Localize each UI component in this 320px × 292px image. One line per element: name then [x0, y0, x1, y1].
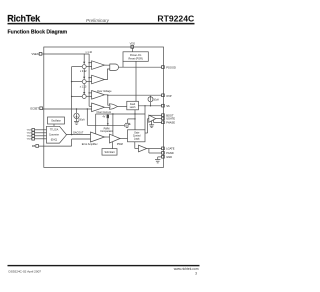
block oscillator [48, 117, 65, 126]
block POR U1 [123, 52, 148, 62]
wire PWM comp to gate logic [120, 138, 127, 140]
wire PGND line [149, 149, 162, 154]
multiplier node circle 1 [82, 65, 86, 69]
wire inhibit to PWM comp [112, 114, 114, 136]
wire latch bottom to gate logic [134, 110, 136, 130]
svg-text:OCSET: OCSET [30, 107, 39, 111]
footer rule [8, 265, 200, 266]
node OCSET source [76, 108, 77, 109]
header rule [8, 23, 195, 25]
svg-text:Comparator: Comparator [100, 130, 113, 133]
OR gate fault [109, 104, 117, 109]
wire DACOUT to error amp [67, 134, 91, 136]
node SS/current source [150, 105, 151, 106]
wire UGATE line [156, 118, 162, 120]
outer block diagram box [44, 47, 164, 167]
wire PGOOD line [119, 66, 163, 68]
comparator T2 (lower PGOOD window) [86, 69, 110, 84]
svg-text:VID0: VID0 [27, 130, 33, 132]
svg-text:VSEN: VSEN [32, 52, 39, 56]
svg-text:RichTek: RichTek [7, 14, 41, 24]
node DACOUT [71, 134, 73, 136]
svg-text:3: 3 [195, 271, 197, 275]
comparator T1 (upper PGOOD window) [86, 61, 110, 70]
comparator PWM [110, 134, 121, 143]
reference 4V clamp [102, 114, 109, 125]
svg-text:DS9224C-02 April 2007: DS9224C-02 April 2007 [9, 269, 42, 273]
multiplier node circle 3 [82, 95, 86, 99]
op-amp error amplifier [91, 132, 105, 142]
ground under 200uA [74, 122, 79, 125]
AND gate PGOOD [110, 64, 119, 70]
svg-text:www.richtek.com: www.richtek.com [174, 267, 199, 271]
svg-text:GND: GND [166, 155, 172, 159]
wire gate logic to lgate driver [135, 142, 139, 149]
svg-text:10uA: 10uA [153, 99, 159, 102]
ground under ugate driver [149, 121, 154, 128]
svg-text:VID3: VID3 [27, 139, 33, 141]
svg-text:TTL D/A: TTL D/A [50, 129, 59, 132]
wire OCSET ramp line [87, 109, 124, 125]
logo RichTek [7, 14, 41, 24]
svg-text:x 1.10: x 1.10 [86, 51, 93, 54]
svg-text:VDD: VDD [130, 42, 136, 46]
pin GND [162, 155, 172, 159]
comparator T3 (over voltage) [86, 91, 108, 100]
wire POR output down to fault latch [135, 61, 137, 101]
svg-text:Over Voltage: Over Voltage [97, 90, 112, 93]
pin VDD (top) [130, 42, 136, 52]
svg-text:RT9224C: RT9224C [157, 14, 194, 24]
wire transistor gate to fault [128, 118, 135, 120]
svg-text:PWM: PWM [117, 143, 123, 146]
node rail tap 3 [71, 96, 72, 97]
current source 200uA [74, 109, 79, 122]
wire POR to PGOOD line [122, 61, 124, 67]
wire DACOUT reference rail [72, 67, 83, 135]
wire VSEN to comparator bus [42, 54, 91, 106]
svg-text:Oscillator: Oscillator [51, 120, 61, 123]
svg-text:VID2: VID2 [27, 136, 33, 138]
svg-text:UGATE: UGATE [166, 117, 175, 121]
node OVP branch [107, 95, 108, 96]
svg-text:200uA: 200uA [78, 118, 85, 121]
transistor SS discharge Q1 [124, 119, 130, 128]
svg-text:LGATE: LGATE [166, 147, 175, 151]
node inhibit to PWM comp [112, 113, 113, 114]
current source 10uA [148, 97, 153, 106]
wire OVP line [108, 94, 162, 96]
pin UGATE [162, 117, 176, 121]
node inhibit/POR [134, 113, 135, 114]
pin VID2 [27, 135, 47, 138]
driver UGATE [149, 115, 156, 122]
svg-text:Over Current: Over Current [97, 111, 112, 114]
wire OR to fault latch [117, 106, 126, 108]
pin VID1 [27, 132, 47, 135]
svg-text:Error Amplifier: Error Amplifier [82, 143, 98, 146]
driver LGATE [139, 145, 147, 152]
pin FB (left) [32, 144, 39, 148]
ground GND symbol [155, 160, 160, 163]
divider element arrow 1 [83, 54, 85, 63]
pin LGATE [162, 147, 175, 151]
pin VID0 [27, 129, 47, 132]
wire gate logic to ugate driver [145, 119, 149, 133]
pin VSEN (left) [32, 52, 42, 56]
wire BOOT line [149, 114, 162, 116]
svg-text:Preliminary: Preliminary [86, 18, 110, 23]
svg-text:Soft-Start: Soft-Start [104, 151, 114, 154]
svg-text:Latch: Latch [130, 106, 136, 109]
svg-text:SS: SS [166, 104, 170, 108]
node rail tap 2 [71, 81, 72, 82]
svg-text:x 0.92: x 0.92 [80, 70, 87, 73]
block fault latch [127, 101, 139, 110]
svg-text:4V: 4V [102, 117, 105, 119]
pin VID3 [27, 138, 47, 141]
pin SS [162, 104, 170, 108]
svg-text:PGND: PGND [166, 151, 174, 155]
wire fault down to gate logic [144, 106, 146, 130]
svg-text:PHASE: PHASE [166, 121, 175, 125]
svg-text:Reset (POR): Reset (POR) [128, 57, 142, 60]
block soft-start [102, 149, 117, 156]
divider element arrow 3 [83, 84, 85, 94]
wire latch to SS pin [138, 105, 162, 107]
wire OVP branch to OR gate [108, 95, 110, 105]
block DAC [47, 126, 67, 143]
svg-text:Converter: Converter [49, 134, 59, 137]
pin OCSET (left) [30, 107, 42, 111]
svg-text:VID1: VID1 [27, 133, 33, 135]
pin OVP [162, 94, 172, 98]
svg-text:OVP: OVP [166, 94, 172, 98]
wire LGATE line [147, 148, 162, 150]
svg-text:PGOOD: PGOOD [166, 65, 176, 69]
wire inhibit line to error amp [96, 114, 145, 134]
wire OCSET line [43, 108, 92, 110]
svg-text:x 1.15: x 1.15 [80, 86, 87, 89]
pin PGOOD [162, 65, 176, 69]
svg-text:FB: FB [32, 144, 36, 148]
svg-text:(DAC): (DAC) [51, 139, 58, 142]
node fault to gate logic [144, 105, 145, 106]
wire soft-start to PWM comp [111, 142, 113, 149]
wire EA out to PWM comp [105, 136, 110, 138]
block gate control logic [128, 130, 146, 142]
wire PHASE line [154, 120, 163, 123]
divider element arrow 2 [83, 69, 85, 79]
multiplier node circle 2 [82, 80, 86, 84]
svg-text:Fault: Fault [130, 103, 135, 106]
svg-text:DACOUT: DACOUT [73, 131, 84, 134]
svg-text:Function Block Diagram: Function Block Diagram [8, 30, 68, 36]
wire FB to error amp [39, 139, 91, 146]
pin BOOT [162, 113, 174, 117]
node OCSET ramp [87, 108, 88, 109]
pin PGND [162, 151, 174, 155]
pin PHASE [162, 121, 176, 125]
comparator T4 (over current) [92, 103, 110, 112]
node 4V/ramp [107, 125, 108, 126]
svg-text:Logic: Logic [134, 138, 141, 141]
node gate/fault [134, 118, 135, 119]
wire GND line [158, 157, 162, 159]
